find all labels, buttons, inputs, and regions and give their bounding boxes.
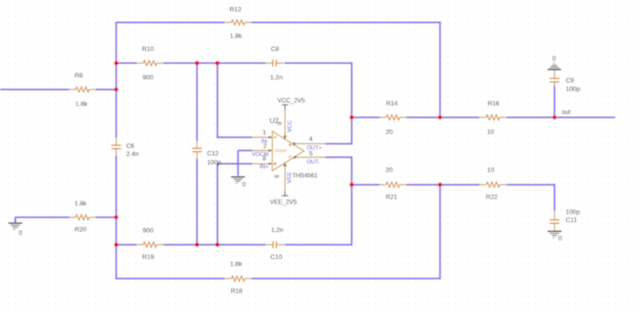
svg-text:1.8k: 1.8k bbox=[230, 261, 243, 268]
svg-text:C8: C8 bbox=[271, 46, 280, 53]
svg-text:100p: 100p bbox=[566, 209, 581, 216]
svg-text:10: 10 bbox=[487, 167, 495, 174]
svg-text:THS4561: THS4561 bbox=[292, 174, 318, 180]
svg-text:C11: C11 bbox=[566, 217, 578, 224]
svg-text:900: 900 bbox=[143, 75, 154, 82]
svg-text:R19: R19 bbox=[142, 254, 154, 261]
svg-text:R10: R10 bbox=[142, 46, 154, 53]
svg-text:VEE_2V5: VEE_2V5 bbox=[270, 199, 297, 206]
svg-text:900: 900 bbox=[143, 227, 154, 234]
svg-text:C10: C10 bbox=[270, 254, 282, 261]
svg-text:0: 0 bbox=[242, 182, 246, 189]
svg-text:out: out bbox=[562, 109, 571, 116]
svg-text:4: 4 bbox=[309, 136, 313, 143]
svg-text:2.4n: 2.4n bbox=[126, 151, 139, 158]
svg-text:OUT+: OUT+ bbox=[307, 146, 322, 152]
svg-text:m: m bbox=[277, 121, 281, 127]
svg-text:1.8k: 1.8k bbox=[230, 33, 243, 40]
svg-text:R14: R14 bbox=[386, 100, 398, 107]
svg-text:1: 1 bbox=[263, 129, 267, 136]
svg-text:1.8k: 1.8k bbox=[75, 200, 88, 207]
svg-text:6: 6 bbox=[274, 174, 281, 178]
svg-text:R18: R18 bbox=[231, 288, 243, 295]
svg-text:R21: R21 bbox=[386, 194, 398, 201]
svg-text:1.8k: 1.8k bbox=[75, 101, 88, 108]
svg-text:0: 0 bbox=[19, 230, 23, 237]
svg-text:C9: C9 bbox=[566, 78, 575, 85]
svg-text:C6: C6 bbox=[126, 143, 135, 150]
svg-text:R16: R16 bbox=[488, 100, 500, 107]
svg-text:1.2n: 1.2n bbox=[270, 75, 283, 82]
svg-text:C12: C12 bbox=[207, 151, 219, 158]
svg-text:10: 10 bbox=[487, 129, 495, 136]
svg-text:20: 20 bbox=[386, 167, 394, 174]
svg-text:R22: R22 bbox=[486, 194, 498, 201]
svg-text:0: 0 bbox=[552, 55, 556, 62]
svg-text:R8: R8 bbox=[75, 73, 84, 80]
svg-text:IN+: IN+ bbox=[260, 165, 269, 171]
svg-text:IN-: IN- bbox=[261, 139, 269, 145]
svg-text:VCC: VCC bbox=[287, 120, 293, 132]
svg-text:20: 20 bbox=[386, 129, 394, 136]
svg-text:5: 5 bbox=[309, 151, 313, 158]
svg-text:R12: R12 bbox=[230, 7, 242, 14]
svg-text:0: 0 bbox=[558, 236, 562, 243]
svg-text:VOCM: VOCM bbox=[252, 152, 269, 158]
svg-text:1.2n: 1.2n bbox=[271, 227, 284, 234]
svg-text:100p: 100p bbox=[207, 159, 222, 166]
svg-text:100p: 100p bbox=[566, 86, 581, 93]
svg-text:OUT-: OUT- bbox=[307, 160, 320, 166]
svg-text:R20: R20 bbox=[75, 227, 87, 234]
svg-text:VCC_2V5: VCC_2V5 bbox=[277, 97, 305, 104]
svg-text:Vocm: Vocm bbox=[275, 148, 287, 153]
